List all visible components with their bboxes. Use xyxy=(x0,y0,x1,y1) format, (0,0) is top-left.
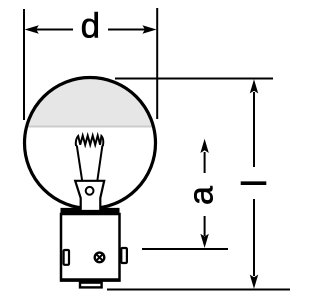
dimension line a: up arrow xyxy=(204,152,206,173)
svg-text:d: d xyxy=(81,7,100,46)
arrowhead d left xyxy=(25,25,39,33)
bottom solder contact xyxy=(80,283,102,288)
dimension line d right segment xyxy=(108,29,146,31)
lead wire right xyxy=(97,146,102,182)
extension line left (d) xyxy=(23,9,25,120)
lead wire left xyxy=(77,146,82,182)
reference line seat plane (a) xyxy=(142,248,228,250)
neck black fill between bulb and base xyxy=(61,208,120,215)
svg-text:a: a xyxy=(182,186,220,205)
extension line right (d) xyxy=(156,8,158,119)
bayonet pin left (inside) xyxy=(64,250,69,265)
bayonet pin right (outside) xyxy=(121,248,127,263)
arrowhead d right xyxy=(142,25,156,33)
bulb frosted top segment xyxy=(24,75,156,128)
dimension line a: down arrow xyxy=(204,216,206,236)
base bottom thick edge xyxy=(60,278,121,281)
filament coil xyxy=(76,136,103,146)
dimension line l: lower segment + down arrow xyxy=(253,199,255,276)
reference line top (l) xyxy=(115,78,273,80)
dimension line l: upper segment + up arrow xyxy=(253,92,255,167)
stem press hole xyxy=(86,187,94,195)
base body xyxy=(61,214,120,281)
dimension line d left segment xyxy=(36,29,73,31)
bulb envelope circle xyxy=(25,78,156,209)
stem press xyxy=(75,181,104,211)
svg-text:l: l xyxy=(236,179,274,187)
center contact screw xyxy=(95,253,105,263)
reference line bottom (l) xyxy=(107,289,290,291)
